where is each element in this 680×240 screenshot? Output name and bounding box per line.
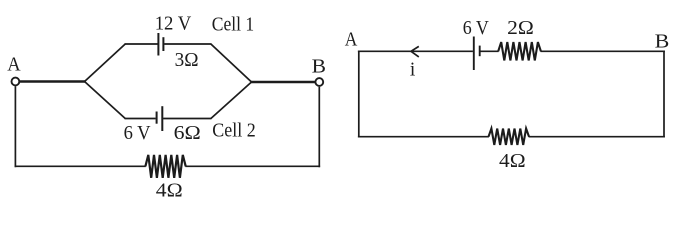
wire right junction to B (thick) (251, 81, 316, 84)
svg-text:4Ω: 4Ω (156, 179, 183, 201)
wire right vertical (right circuit) (663, 51, 665, 138)
svg-text:i: i (410, 60, 416, 81)
svg-text:Cell 2: Cell 2 (212, 120, 255, 142)
battery Cell 1 long plate (157, 33, 159, 56)
svg-text:B: B (312, 56, 326, 77)
resistor 2 ohm (498, 42, 541, 60)
svg-text:6 V: 6 V (124, 122, 152, 144)
wire top branch left (125, 43, 158, 45)
svg-text:Cell 1: Cell 1 (212, 13, 254, 35)
wire bottom branch right (163, 118, 211, 120)
wire left vertical (right circuit) (358, 51, 360, 138)
svg-text:2Ω: 2Ω (507, 17, 534, 39)
wire diagonal left junction to top branch (84, 44, 126, 82)
svg-text:6 V: 6 V (463, 17, 490, 39)
wire bottom right segment (right circuit) (529, 136, 665, 138)
svg-text:B: B (655, 31, 670, 52)
wire diagonal bottom branch to right junction (211, 82, 252, 119)
battery Cell 2 long plate (161, 106, 163, 131)
terminal B (left circuit) (315, 78, 323, 86)
current arrow (411, 46, 419, 57)
battery 6 V short plate (right circuit) (479, 46, 481, 57)
resistor 4 ohm (right circuit) (489, 129, 530, 145)
wire bottom left segment (15, 165, 146, 167)
svg-text:12 V: 12 V (155, 13, 192, 35)
wire diagonal top branch to right junction (211, 44, 252, 82)
svg-text:4Ω: 4Ω (499, 150, 526, 172)
svg-text:3Ω: 3Ω (175, 49, 199, 71)
battery Cell 2 short plate (156, 112, 158, 124)
svg-text:A: A (7, 54, 20, 75)
wire top right segment (right circuit) (541, 50, 665, 52)
battery Cell 1 short plate (162, 37, 164, 51)
resistor 4 ohm (left circuit) (145, 155, 185, 178)
wire left vertical from A down (14, 86, 16, 167)
wire bottom branch left (125, 118, 156, 120)
svg-text:6Ω: 6Ω (174, 122, 201, 144)
wire diagonal left junction to bottom branch (84, 81, 126, 119)
wire right vertical to B (318, 87, 320, 168)
svg-text:A: A (345, 29, 358, 50)
wire bottom left segment (right circuit) (358, 136, 489, 138)
wire bottom right segment (185, 165, 320, 167)
battery 6 V long plate (right circuit) (473, 37, 475, 71)
wire A to left junction (thick) (20, 80, 85, 83)
terminal A (left circuit) (12, 78, 20, 86)
wire top left segment (right circuit) (358, 50, 473, 52)
wire top branch right (164, 43, 211, 45)
wire battery to resistor (480, 50, 498, 52)
